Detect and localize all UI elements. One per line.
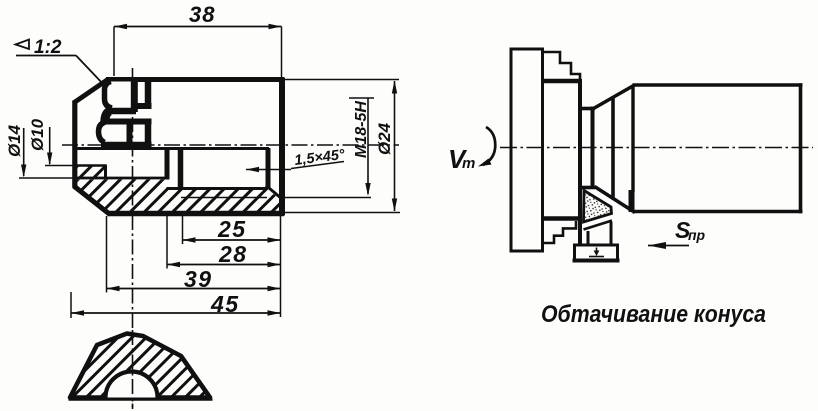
svg-text:25: 25 bbox=[217, 216, 247, 242]
bore step wall vertical bbox=[104, 165, 107, 180]
thread relief groove left wall bbox=[165, 148, 170, 180]
inner vertical edge (counterbore) upper segment bbox=[145, 81, 152, 109]
tool base block bbox=[575, 245, 618, 260]
lobe 1 (upper flute), white interior bbox=[105, 82, 135, 109]
cylinder top edge bbox=[633, 83, 803, 87]
cone slope top-left bbox=[74, 79, 109, 103]
svg-text:Ø24: Ø24 bbox=[375, 122, 394, 155]
tool shank left edge bbox=[587, 231, 590, 245]
svg-text:Обтачивание конуса: Обтачивание конуса bbox=[541, 301, 766, 328]
bore line (section, below axis) bbox=[77, 147, 269, 150]
thread extension line for M18-5H bbox=[284, 197, 371, 199]
vertical centerline through section view bbox=[132, 68, 134, 409]
lobe 2 bottom stroke bbox=[101, 142, 152, 148]
cone bottom slant (machined surface) bbox=[595, 187, 636, 213]
M18-5H label (rotated) with leader bbox=[349, 97, 374, 99]
chamfer label 1.5x45 bbox=[246, 167, 259, 172]
cone left face edge bbox=[611, 97, 615, 200]
dimension 28 bbox=[167, 264, 281, 266]
thread relief groove right wall bbox=[178, 148, 184, 189]
svg-text:38: 38 bbox=[189, 2, 215, 27]
bottom jaw staircase bbox=[543, 221, 577, 243]
bottom jaw bar bbox=[543, 216, 579, 220]
extension lines below part bbox=[182, 216, 184, 244]
section bottom line bbox=[69, 398, 213, 401]
dimension 45 bbox=[71, 312, 281, 314]
right edge bbox=[279, 78, 285, 216]
thread end edge bbox=[266, 148, 271, 189]
bore step line (O10) bbox=[77, 164, 106, 167]
thread end chamfer bbox=[266, 186, 282, 199]
waist connector between flutes bbox=[105, 111, 110, 122]
gripped portion right face bbox=[591, 107, 595, 190]
svg-text:45: 45 bbox=[210, 291, 240, 317]
svg-text:пр: пр bbox=[688, 227, 706, 243]
dimension O24 (rotated) bbox=[284, 79, 399, 81]
svg-text:Ø10: Ø10 bbox=[28, 118, 47, 151]
lobe 2 (lower flute), white interior bbox=[99, 122, 130, 143]
cylinder right edge bbox=[799, 83, 803, 213]
lathe axis centerline bbox=[500, 147, 813, 149]
svg-text:1,5×45°: 1,5×45° bbox=[294, 147, 346, 169]
thread minor line bbox=[167, 187, 269, 190]
tool shank right edge bbox=[610, 222, 613, 245]
top jaw bar bbox=[543, 79, 582, 83]
lobe 2 top stroke with stub bbox=[106, 119, 152, 125]
gripped portion bottom edge bbox=[580, 186, 595, 190]
top jaw staircase bbox=[543, 52, 581, 81]
section outline bbox=[70, 334, 210, 398]
dimension 25 bbox=[183, 239, 281, 241]
lobe 1 bottom stroke bbox=[108, 108, 136, 115]
horizontal axis centerline bbox=[62, 144, 399, 146]
cylinder bottom edge bbox=[633, 210, 803, 214]
svg-text:28: 28 bbox=[218, 241, 248, 267]
hatch region R (threaded wall) bbox=[167, 190, 282, 212]
inner vertical edge lower segment bbox=[145, 121, 152, 151]
cone top slant bbox=[594, 85, 635, 109]
tool position mark bbox=[596, 248, 598, 253]
part top edge bbox=[106, 77, 284, 82]
cutting tool insert (stippled) bbox=[584, 191, 612, 223]
stub from lobe 1 to counterbore edge bbox=[133, 103, 152, 109]
svg-text:Ø14: Ø14 bbox=[5, 124, 24, 157]
lobe 1 right edge bbox=[131, 81, 138, 112]
hatch region L (cone wall lower-left) bbox=[76, 180, 167, 212]
svg-text:39: 39 bbox=[184, 266, 213, 292]
chuck body bbox=[511, 49, 543, 251]
bottom edge bbox=[108, 211, 284, 216]
jaw front face bbox=[578, 79, 582, 244]
dimension 38 bbox=[114, 26, 282, 28]
thread major line (thin) bbox=[181, 197, 267, 199]
bore line (O14) bbox=[77, 177, 167, 180]
left edge bbox=[72, 101, 77, 188]
svg-text:m: m bbox=[462, 155, 475, 172]
gripped portion top edge bbox=[580, 107, 595, 111]
dimension 39 bbox=[107, 288, 281, 290]
tool base bottom thick bbox=[573, 259, 620, 263]
cone-cylinder junction edge bbox=[631, 85, 634, 192]
bottom-left slope bbox=[74, 186, 110, 215]
taper symbol and 1:2 label bbox=[16, 40, 30, 50]
section bore hole bbox=[106, 372, 158, 398]
insert braze line bbox=[584, 221, 613, 230]
section view centerline overlay bbox=[132, 330, 134, 409]
hatch small step box (between bore steps) bbox=[77, 166, 106, 179]
lobe 2 right edge bbox=[127, 120, 133, 144]
